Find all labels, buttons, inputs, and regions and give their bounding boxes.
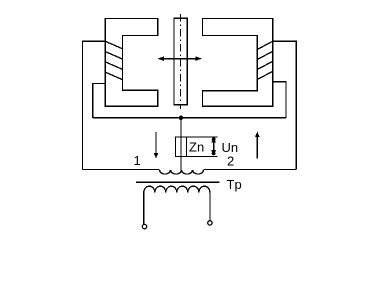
transformer Tp core line: [136, 181, 220, 183]
wire: secondary right lead: [209, 192, 211, 220]
svg-text:Un: Un: [222, 140, 239, 155]
transformer Tp secondary winding: [144, 186, 210, 192]
terminal left: [142, 224, 146, 228]
wire: bottom rail left segment: [83, 168, 160, 170]
measurement line bottom: [187, 156, 218, 158]
svg-text:1: 1: [134, 153, 141, 168]
right core (C-shaped magnetic core): [203, 18, 273, 106]
transformer Tp primary winding: [160, 170, 204, 174]
armature (moving plate): [174, 18, 187, 105]
svg-text:Zn: Zn: [189, 139, 204, 154]
terminal right: [208, 221, 212, 225]
coil L1 (left, hatching): [105, 41, 122, 79]
measurement line top: [187, 136, 218, 138]
motion double arrow: [158, 56, 202, 61]
Un double arrow: [211, 137, 216, 156]
left core (C-shaped magnetic core): [105, 18, 158, 106]
svg-text:Tp: Tp: [227, 177, 242, 192]
wire: inner rail: [93, 117, 286, 119]
wire: junction down through Zn to primary center tap: [180, 118, 182, 170]
wire: secondary left lead: [143, 192, 145, 224]
wire: right coil top tap to right rail: [273, 41, 297, 169]
wire: left coil top tap to left rail: [83, 41, 106, 169]
wire: bottom rail right segment: [204, 168, 297, 170]
coil L2 (right, hatching): [257, 41, 272, 79]
wire: left coil bottom tap down to inner rail: [93, 84, 106, 118]
impedance Zn box: [176, 137, 187, 157]
svg-text:2: 2: [227, 153, 234, 168]
node junction dot: [179, 116, 184, 121]
current arrow down (left): [154, 132, 159, 158]
armature axis (dash-dot center line): [180, 14, 182, 109]
wire: right coil bottom tap down to inner rail: [273, 82, 286, 118]
current arrow up (right): [255, 132, 260, 159]
